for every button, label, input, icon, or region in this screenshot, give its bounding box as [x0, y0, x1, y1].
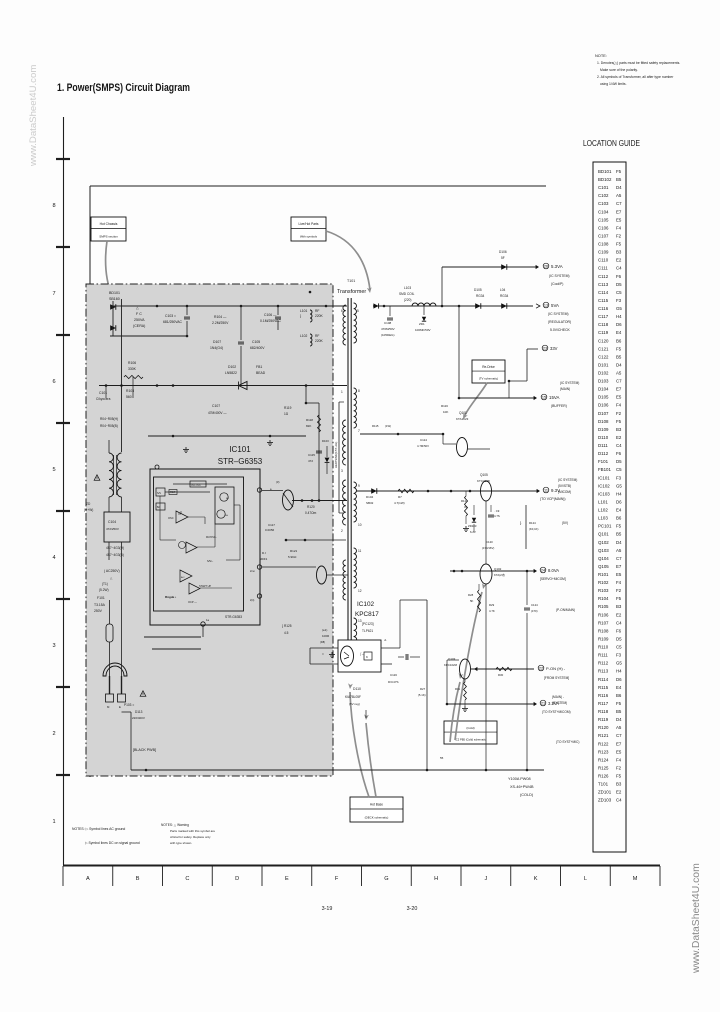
svg-text:MV/OSC–: MV/OSC– — [206, 536, 217, 539]
svg-text:F3: F3 — [616, 653, 622, 658]
wire secondary 5.3V — [442, 266, 536, 268]
svg-text:(220): (220) — [404, 298, 411, 302]
drive transistor Q100 — [283, 490, 294, 510]
svg-text:D107: D107 — [213, 340, 221, 344]
svg-text:C108: C108 — [384, 321, 392, 325]
varistor box C104 — [104, 512, 130, 542]
svg-text:E2: E2 — [616, 435, 622, 440]
svg-text:R7: R7 — [398, 495, 402, 499]
svg-text:11: 11 — [544, 489, 548, 493]
wire bridge top — [110, 305, 122, 307]
svg-text:F4: F4 — [616, 403, 622, 408]
svg-text:E5: E5 — [616, 395, 622, 400]
svg-text:LOCATION GUIDE: LOCATION GUIDE — [583, 138, 640, 148]
svg-text:C109: C109 — [598, 250, 609, 255]
svg-text:100MF/50V: 100MF/50V — [415, 328, 431, 332]
diode D104 — [371, 488, 377, 494]
svg-text:C4: C4 — [616, 798, 622, 803]
common-mode choke L102 — [109, 453, 113, 497]
output label 23 — [542, 345, 548, 351]
svg-text:FB1: FB1 — [256, 365, 262, 369]
svg-text:SB32: SB32 — [366, 501, 374, 505]
svg-text:IC103: IC103 — [598, 491, 610, 496]
svg-text:} R125: } R125 — [282, 624, 292, 628]
svg-text:S/5c–: S/5c– — [207, 560, 214, 563]
node junction row — [186, 305, 189, 308]
svg-text:ZD1: ZD1 — [419, 322, 425, 326]
svg-text:C102: C102 — [598, 193, 609, 198]
snubber bottom wire — [286, 539, 346, 541]
svg-text:=: = — [322, 652, 324, 656]
svg-text:6: 6 — [52, 379, 55, 385]
svg-text:E5: E5 — [616, 749, 622, 754]
svg-text:R103: R103 — [598, 588, 609, 593]
svg-text:L103: L103 — [404, 286, 411, 290]
wire IC pin2 to T — [262, 566, 317, 568]
svg-text:R113: R113 — [598, 669, 609, 674]
diode D104b — [501, 303, 507, 309]
svg-text:B5: B5 — [616, 354, 622, 359]
svg-text:Q105: Q105 — [480, 473, 488, 477]
output label 21 — [540, 700, 546, 706]
svg-text:L04: L04 — [500, 288, 506, 292]
svg-text:F C: F C — [136, 312, 142, 316]
svg-text:4: 4 — [52, 555, 55, 561]
svg-text:3DF1: 3DF1 — [260, 557, 268, 561]
cap C124 — [526, 571, 528, 605]
svg-text:(TO VCP(MAIN)): (TO VCP(MAIN)) — [540, 497, 566, 501]
svg-text:23: 23 — [543, 347, 547, 351]
svg-text:www.DataSheet4U.com: www.DataSheet4U.com — [28, 65, 39, 167]
svg-text:E7: E7 — [616, 209, 622, 214]
svg-text:(COLD): (COLD) — [520, 793, 534, 797]
svg-text:TLP621: TLP621 — [362, 629, 373, 633]
svg-text:C112: C112 — [598, 274, 609, 279]
svg-text:Q102: Q102 — [598, 540, 609, 545]
svg-text:(REGULATOR): (REGULATOR) — [548, 320, 571, 324]
svg-text:Q101: Q101 — [598, 532, 609, 537]
svg-text:1Ω: 1Ω — [284, 412, 289, 416]
svg-text:10K: 10K — [443, 410, 448, 414]
wire 15VA — [459, 397, 534, 399]
svg-text:RG34: RG34 — [476, 294, 485, 298]
svg-text:IC102: IC102 — [598, 483, 610, 488]
svg-text:D105: D105 — [474, 288, 482, 292]
svg-text:472: 472 — [308, 459, 313, 463]
q105 vert — [485, 501, 487, 564]
svg-text:D.I: D.I — [262, 551, 266, 555]
svg-text:HEATSINK(0.5T+AL): HEATSINK(0.5T+AL) — [334, 442, 338, 468]
output label 11 — [543, 487, 549, 493]
svg-text:P-ON (H) -: P-ON (H) - — [546, 666, 566, 671]
svg-text:5F: 5F — [501, 256, 505, 260]
capacitor C105 — [240, 306, 242, 340]
svg-text:1N4(G4): 1N4(G4) — [210, 346, 223, 350]
svg-text:472/250V: 472/250V — [106, 527, 119, 531]
svg-text:F2: F2 — [616, 588, 622, 593]
svg-text:SB160: SB160 — [109, 297, 120, 301]
inner frame top border — [90, 185, 546, 187]
svg-text:T3.15A: T3.15A — [94, 603, 106, 607]
svg-text:ZD103: ZD103 — [598, 798, 612, 803]
svg-text:D4: D4 — [616, 362, 622, 367]
bridge rectifier BD101 diodes — [110, 304, 116, 310]
svg-text:OCP —: OCP — — [188, 600, 197, 604]
svg-text:C119: C119 — [598, 330, 609, 335]
transformer T101 core — [347, 298, 349, 660]
inner frame left border — [89, 186, 91, 777]
svg-text:D112: D112 — [598, 451, 609, 456]
svg-text:Hot Base: Hot Base — [370, 803, 383, 807]
grid row ticks and labels (8..1) — [56, 158, 70, 160]
svg-text:R110: R110 — [598, 645, 609, 650]
svg-text:E: E — [285, 876, 289, 882]
svg-text:470M/50V: 470M/50V — [381, 327, 395, 331]
diode D103 — [325, 458, 330, 463]
svg-text:B6: B6 — [616, 693, 622, 698]
ground feedback — [331, 652, 333, 654]
svg-text:•1: •1 — [384, 638, 387, 642]
svg-text:BD101: BD101 — [598, 169, 612, 174]
snubber top wire — [306, 402, 319, 404]
svg-text:3: 3 — [52, 643, 55, 649]
callout Hot Base — [350, 797, 403, 822]
wire x427 riser — [426, 600, 428, 770]
svg-text:RF: RF — [315, 334, 319, 338]
svg-text:B6: B6 — [616, 516, 622, 521]
svg-text:C124: C124 — [531, 603, 538, 607]
svg-text:BD102: BD102 — [598, 177, 612, 182]
svg-text:R109: R109 — [598, 636, 609, 641]
svg-text:R108: R108 — [598, 628, 609, 633]
svg-text:3-20: 3-20 — [407, 906, 418, 912]
svg-text:(IC SYSTEM): (IC SYSTEM) — [549, 274, 570, 278]
callout Live/Hot Parts — [291, 217, 326, 241]
svg-text:9: 9 — [358, 484, 360, 488]
wire 3.3V — [447, 703, 534, 705]
transistor Q inside drive upper — [220, 493, 228, 501]
varistor leads — [108, 542, 110, 560]
IC101 inner wiring — [159, 496, 161, 540]
IC101 block label — [190, 481, 206, 487]
svg-text:C118: C118 — [598, 322, 609, 327]
svg-text:Q103: Q103 — [448, 657, 456, 661]
svg-text:(5.1K): (5.1K) — [418, 693, 426, 697]
photocoupler wires right — [381, 647, 400, 649]
wire q102 down — [485, 584, 487, 660]
resistor R122 — [465, 496, 468, 516]
svg-text:R104 —: R104 — — [214, 315, 227, 319]
svg-text:C120: C120 — [486, 540, 493, 544]
svg-text:C106: C106 — [598, 225, 609, 230]
wire B+ bus — [99, 385, 347, 387]
wire IC to Q100 — [262, 490, 284, 492]
svg-text:Transformer: Transformer — [337, 289, 366, 295]
svg-text:6.2V: 6.2V — [470, 530, 476, 534]
ground mid — [269, 440, 271, 442]
IC101 block S/S — [156, 488, 165, 496]
photocoupler IC102 box — [338, 640, 381, 672]
svg-text:SMD COIL: SMD COIL — [399, 292, 415, 296]
capacitor C103 — [186, 306, 188, 315]
diode D102 on bus — [239, 382, 248, 390]
svg-text:5VA: 5VA — [551, 303, 559, 308]
svg-text:D105: D105 — [598, 395, 609, 400]
svg-text:L: L — [584, 876, 587, 882]
svg-text:R126: R126 — [598, 774, 609, 779]
svg-text:0.47Ωm: 0.47Ωm — [305, 511, 317, 515]
svg-text:4.7(1W): 4.7(1W) — [394, 501, 405, 505]
svg-text:F4: F4 — [616, 225, 622, 230]
svg-text:R105: R105 — [598, 604, 609, 609]
snubber vertical — [318, 403, 320, 500]
svg-text:R122: R122 — [598, 741, 609, 746]
leader arrow to photocoupler — [350, 692, 369, 797]
svg-text:(3): (3) — [276, 480, 279, 484]
svg-text:R29: R29 — [489, 603, 495, 607]
svg-text:E2: E2 — [616, 258, 622, 263]
svg-text:(105DEG): (105DEG) — [381, 333, 395, 337]
IC101 osc symbol — [178, 511, 181, 514]
svg-text:D110: D110 — [353, 687, 361, 691]
svg-text:15VA: 15VA — [549, 395, 559, 400]
svg-text:R122: R122 — [461, 499, 468, 503]
svg-text:D110: D110 — [598, 435, 609, 440]
svg-text:www.DataSheet4U.com: www.DataSheet4U.com — [691, 863, 702, 974]
svg-text:FB101: FB101 — [598, 467, 611, 472]
svg-text:A5: A5 — [616, 725, 622, 730]
svg-text:F: F — [335, 876, 339, 882]
output label 22 — [538, 665, 544, 671]
svg-text:BD101: BD101 — [109, 291, 120, 295]
svg-text:F5: F5 — [616, 524, 622, 529]
svg-text:F6: F6 — [616, 274, 622, 279]
svg-text:C105: C105 — [598, 217, 609, 222]
svg-text:R117: R117 — [598, 701, 609, 706]
svg-text:C103: C103 — [598, 201, 609, 206]
IC101 wire top — [165, 491, 210, 493]
wire d110 — [365, 710, 367, 718]
svg-text:Re-Drive: Re-Drive — [482, 365, 495, 369]
svg-text:6: 6 — [341, 309, 343, 313]
svg-text:BEAD: BEAD — [256, 371, 266, 375]
svg-text:(Cool/P): (Cool/P) — [551, 282, 563, 286]
wire q101 out — [467, 448, 490, 450]
svg-text:B3: B3 — [616, 250, 622, 255]
svg-text:Q104: Q104 — [598, 556, 609, 561]
svg-text:F5: F5 — [616, 701, 622, 706]
IC101 drive block — [215, 487, 234, 524]
svg-text:(CERA): (CERA) — [133, 324, 145, 328]
svg-text:(BUFFER): (BUFFER) — [551, 404, 567, 408]
svg-text:250V: 250V — [94, 609, 103, 613]
svg-text:R115: R115 — [372, 424, 379, 428]
svg-text:ZD103: ZD103 — [468, 524, 477, 528]
svg-text:1: 1 — [52, 819, 55, 825]
capacitor C115 — [316, 450, 322, 452]
svg-text:22: 22 — [539, 667, 543, 671]
svg-text:(1W): (1W) — [385, 424, 391, 428]
svg-text:B5: B5 — [616, 177, 622, 182]
grid column letters (A..M) — [62, 866, 64, 886]
svg-text:C116: C116 — [390, 673, 397, 677]
svg-text:8.0VA: 8.0VA — [548, 568, 559, 573]
svg-text:F5: F5 — [616, 774, 622, 779]
svg-text:▷ Symbol lines DC on signal gr: ▷ Symbol lines DC on signal ground — [85, 841, 140, 845]
svg-text:R04~R05(B): R04~R05(B) — [100, 424, 118, 428]
svg-text:F4: F4 — [616, 757, 622, 762]
svg-text:100R: 100R — [322, 634, 330, 638]
svg-text:1: 1 — [341, 390, 343, 394]
svg-text:F5: F5 — [616, 346, 622, 351]
inductor L103 — [412, 303, 436, 306]
svg-text:A5: A5 — [616, 371, 622, 376]
svg-text:F2: F2 — [616, 233, 622, 238]
capacitor C116 — [405, 654, 407, 660]
svg-text:R120: R120 — [598, 725, 609, 730]
leader arrow to Q101 — [464, 383, 487, 417]
schematic frame bottom border — [63, 865, 660, 867]
svg-text:IC101: IC101 — [598, 475, 610, 480]
svg-text:E4: E4 — [616, 330, 622, 335]
svg-text:4.7S: 4.7S — [494, 514, 500, 518]
svg-text:F5: F5 — [616, 242, 622, 247]
svg-text:L101: L101 — [598, 499, 608, 504]
svg-text:R106: R106 — [598, 612, 609, 617]
svg-text:0.1M/250VAC: 0.1M/250VAC — [260, 319, 281, 323]
diode D105 — [475, 303, 481, 309]
svg-text:C5: C5 — [616, 467, 622, 472]
svg-text:C111: C111 — [598, 266, 608, 271]
svg-text:D111: D111 — [598, 443, 608, 448]
svg-text:H4: H4 — [616, 491, 622, 496]
arrow 5VA — [536, 304, 540, 308]
IC101 inner box — [154, 477, 244, 611]
svg-text:E7: E7 — [616, 387, 622, 392]
svg-text:C5: C5 — [616, 645, 622, 650]
diode secondary entry — [373, 303, 378, 308]
svg-text:NOTES: △ Warning: NOTES: △ Warning — [161, 823, 189, 827]
svg-text:E: E — [119, 705, 121, 709]
svg-text:E5: E5 — [616, 572, 622, 577]
svg-text:5: 5 — [357, 309, 359, 313]
svg-text:C104: C104 — [598, 209, 609, 214]
bracket R124 — [525, 505, 527, 549]
svg-text:critical for safety. Replace o: critical for safety. Replace only — [170, 835, 211, 839]
svg-text:E7: E7 — [616, 741, 622, 746]
svg-text:R111: R111 — [598, 653, 608, 658]
svg-text:RG34: RG34 — [500, 294, 509, 298]
svg-text:Rögde •: Rögde • — [165, 595, 176, 599]
svg-text:(MAIN) -: (MAIN) - — [552, 695, 564, 699]
svg-text:5.3VA: 5.3VA — [551, 264, 563, 269]
resistor R131 — [464, 682, 467, 700]
cap C119 — [490, 505, 492, 512]
svg-text:KTC3198: KTC3198 — [477, 479, 490, 483]
zener ZD101 — [423, 306, 425, 315]
wire left riser — [130, 712, 132, 770]
bracket 33V — [527, 348, 538, 350]
comparator A4 — [189, 583, 200, 594]
svg-text:Parts marked with this symbol: Parts marked with this symbol are — [170, 829, 215, 833]
svg-text:KIA78L05F: KIA78L05F — [345, 695, 361, 699]
svg-text:3-19: 3-19 — [322, 906, 333, 912]
svg-text:R125: R125 — [598, 765, 609, 770]
svg-text:5: 5 — [52, 467, 55, 473]
AC plug terminals — [106, 694, 114, 702]
svg-text:220/400V: 220/400V — [132, 716, 145, 720]
svg-text:R115: R115 — [598, 685, 609, 690]
svg-text:F3: F3 — [616, 475, 622, 480]
svg-text:R124: R124 — [529, 521, 536, 525]
svg-text:C110: C110 — [598, 258, 609, 263]
svg-text:D103: D103 — [322, 439, 329, 443]
svg-text:F2: F2 — [616, 765, 622, 770]
wire q104 t — [326, 574, 348, 576]
wire mid rail — [148, 435, 306, 437]
svg-text:7: 7 — [358, 429, 360, 433]
svg-text:Y100A PW08: Y100A PW08 — [508, 777, 531, 781]
resistor R106 — [124, 375, 143, 378]
svg-text:L102: L102 — [300, 334, 308, 338]
svg-text:(IC SYSTEM): (IC SYSTEM) — [558, 478, 577, 482]
svg-text:C7: C7 — [616, 733, 622, 738]
svg-text:A5: A5 — [616, 193, 622, 198]
svg-text:D5: D5 — [616, 459, 622, 464]
svg-text:(IC SYSTEM): (IC SYSTEM) — [560, 381, 579, 385]
svg-text:[PC123]: [PC123] — [362, 622, 374, 626]
svg-text:D106: D106 — [598, 403, 609, 408]
svg-text:M: M — [633, 876, 638, 882]
svg-text:4.5: 4.5 — [284, 631, 289, 635]
svg-text:· C9: · C9 — [494, 509, 500, 513]
svg-text:0.0056: 0.0056 — [265, 528, 275, 532]
wire q103 col — [446, 660, 448, 704]
svg-text:C: C — [185, 876, 189, 882]
resistor R128 — [478, 590, 481, 612]
svg-text:B5: B5 — [616, 532, 622, 537]
svg-text:C113: C113 — [598, 282, 609, 287]
transistor Q104g — [317, 566, 327, 584]
svg-text:11: 11 — [358, 549, 362, 553]
svg-text:C122: C122 — [598, 354, 609, 359]
transistor Q105 — [481, 481, 492, 501]
svg-text:with type shown.: with type shown. — [170, 841, 192, 845]
svg-text:(5V reg): (5V reg) — [349, 702, 360, 706]
svg-text:A: A — [86, 876, 90, 882]
svg-text:PC101: PC101 — [598, 524, 612, 529]
svg-text:1a: 1a — [206, 618, 210, 622]
svg-text:(T1): (T1) — [102, 582, 108, 586]
svg-text:R28: R28 — [468, 593, 474, 597]
svg-text:KPC817: KPC817 — [355, 611, 379, 618]
svg-text:△: △ — [136, 306, 139, 310]
svg-text:E4: E4 — [616, 685, 622, 690]
svg-text:R119: R119 — [598, 717, 609, 722]
svg-text:C107: C107 — [598, 233, 609, 238]
svg-text:R124: R124 — [598, 757, 609, 762]
svg-text:Live/Hot Parts: Live/Hot Parts — [298, 222, 318, 226]
svg-text:(P-ON/MAIN): (P-ON/MAIN) — [556, 608, 575, 612]
svg-text:G: G — [384, 876, 388, 882]
svg-text:R30: R30 — [498, 673, 504, 677]
svg-text:R27: R27 — [420, 687, 426, 691]
svg-text:R123: R123 — [598, 749, 609, 754]
svg-text:F6: F6 — [616, 451, 622, 456]
svg-text:F5: F5 — [616, 419, 622, 424]
svg-text:5.9KΩ: 5.9KΩ — [288, 555, 297, 559]
svg-text:C7: C7 — [616, 201, 622, 206]
